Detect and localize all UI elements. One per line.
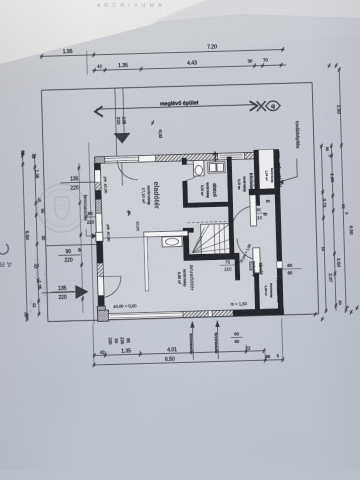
svg-text:gem: gem <box>12 103 20 108</box>
